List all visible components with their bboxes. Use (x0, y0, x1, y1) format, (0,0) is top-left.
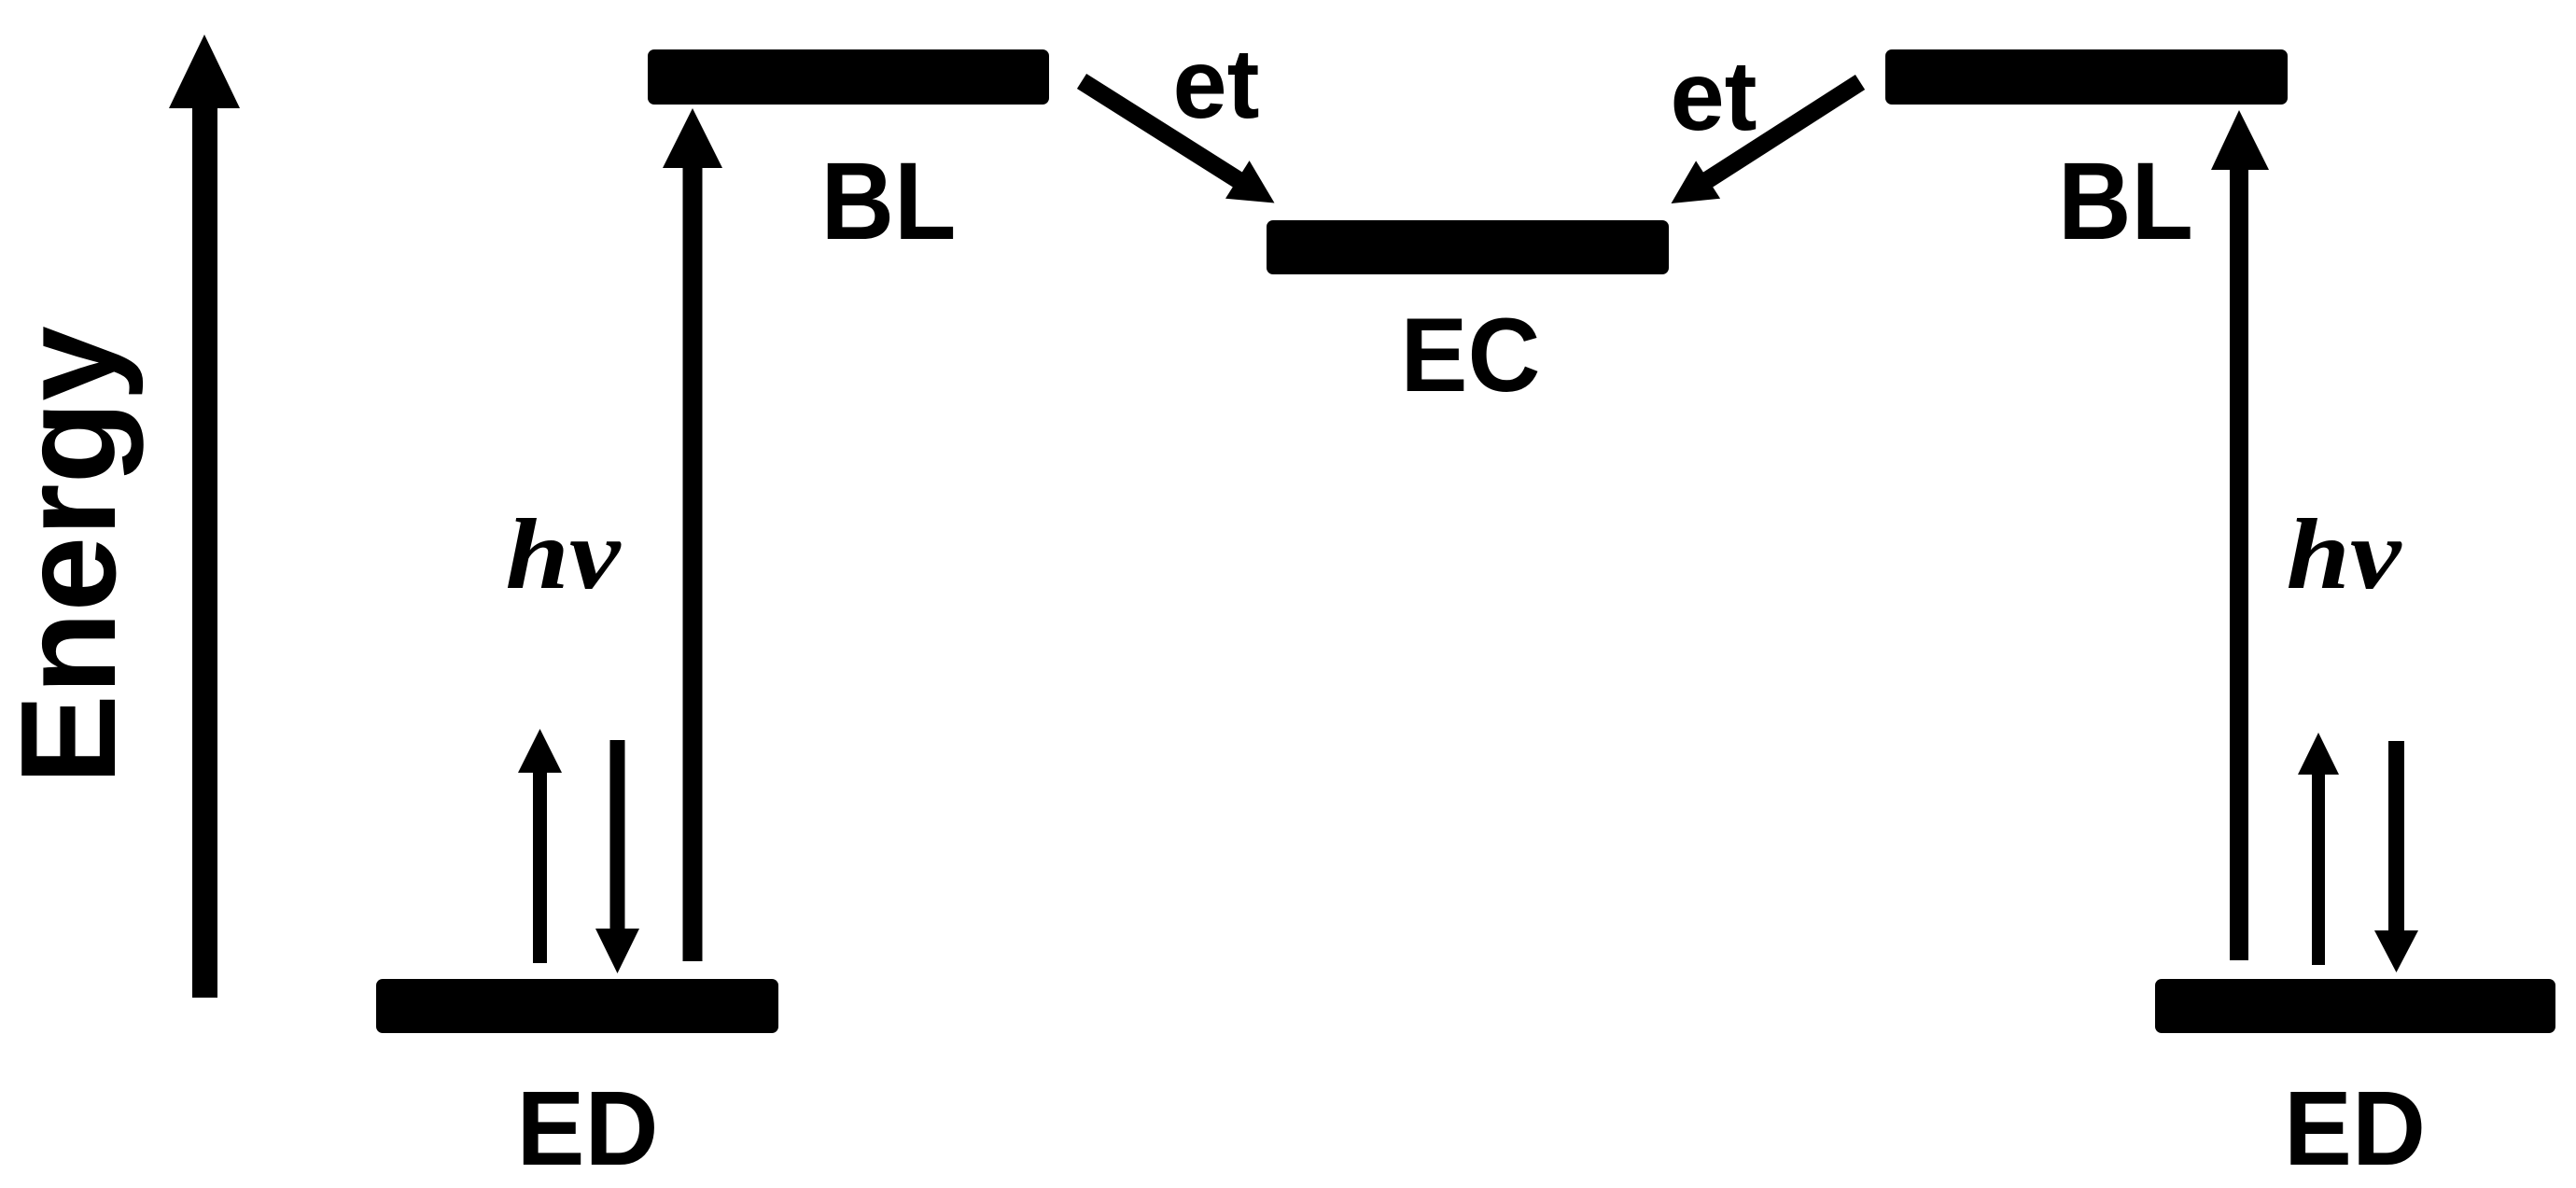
absorption arrow hv (right) (2211, 110, 2269, 960)
level ED (right) (2155, 979, 2555, 1033)
energy axis arrow (169, 35, 240, 998)
level ED (left) (376, 979, 778, 1033)
electron spin down arrow (left) (595, 740, 639, 973)
svg-text:hv: hv (506, 499, 622, 610)
electron transfer arrow et (left) (1082, 81, 1275, 203)
svg-text:ED: ED (517, 1069, 659, 1187)
electron spin up arrow (right) (2298, 733, 2339, 965)
svg-text:EC: EC (1401, 297, 1541, 413)
electron spin down arrow (right) (2374, 741, 2418, 972)
svg-text:et: et (1671, 41, 1757, 151)
level EC (center) (1267, 220, 1669, 274)
svg-text:ED: ED (2284, 1069, 2426, 1187)
electron spin up arrow (left) (518, 729, 562, 963)
svg-text:hv: hv (2287, 499, 2402, 610)
svg-text:Energy: Energy (0, 326, 144, 785)
absorption arrow hv (left) (663, 108, 722, 961)
svg-text:BL: BL (2058, 140, 2193, 263)
electron transfer arrow et (right) (1672, 82, 1861, 203)
level BL (right) (1885, 49, 2288, 105)
level BL (left) (648, 49, 1049, 105)
svg-text:BL: BL (821, 140, 957, 263)
svg-text:et: et (1173, 29, 1260, 139)
